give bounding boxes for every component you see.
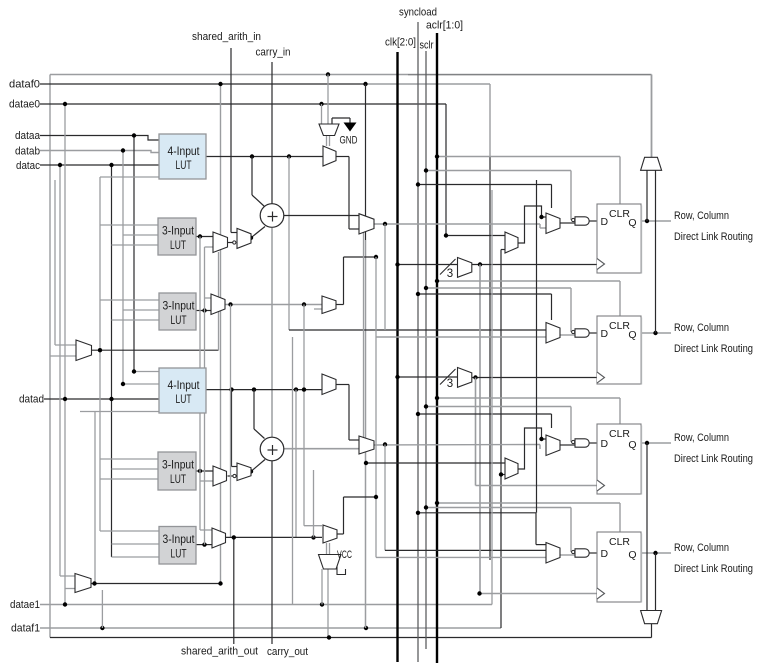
svg-text:4-Input: 4-Input [168,146,201,158]
svg-text:Q: Q [628,217,636,229]
svg-text:datab: datab [15,146,40,158]
svg-text:LUT: LUT [171,315,187,327]
svg-text:3: 3 [447,268,453,280]
svg-text:D: D [601,216,609,228]
svg-text:datae1: datae1 [10,599,40,611]
svg-text:CLR: CLR [609,320,630,332]
svg-text:aclr[1:0]: aclr[1:0] [426,20,463,32]
svg-text:VCC: VCC [337,549,352,561]
svg-text:Row, Column: Row, Column [674,322,729,334]
svg-text:CLR: CLR [609,428,630,440]
svg-text:carry_in: carry_in [256,47,291,59]
svg-text:Direct Link Routing: Direct Link Routing [674,453,753,465]
svg-text:3-Input: 3-Input [163,301,196,313]
svg-text:sclr: sclr [420,40,434,52]
svg-text:D: D [601,548,609,560]
svg-text:datae0: datae0 [9,99,40,111]
svg-text:4-Input: 4-Input [168,380,201,392]
svg-text:3-Input: 3-Input [162,460,195,472]
svg-text:dataf1: dataf1 [11,623,40,635]
svg-text:dataa: dataa [15,130,41,142]
svg-text:LUT: LUT [171,549,187,561]
svg-text:3-Input: 3-Input [162,226,195,238]
svg-text:shared_arith_in: shared_arith_in [192,31,261,43]
svg-text:syncload: syncload [399,7,437,19]
svg-text:clk[2:0]: clk[2:0] [385,37,416,49]
svg-text:shared_arith_out: shared_arith_out [181,646,258,658]
svg-text:CLR: CLR [609,208,630,220]
svg-text:Direct Link Routing: Direct Link Routing [674,563,753,575]
svg-text:dataf0: dataf0 [9,79,40,91]
svg-text:datad: datad [19,394,44,406]
svg-text:Q: Q [628,329,636,341]
svg-text:Row, Column: Row, Column [674,542,729,554]
svg-text:Row, Column: Row, Column [674,210,729,222]
svg-text:3-Input: 3-Input [163,534,196,546]
svg-text:Direct Link Routing: Direct Link Routing [674,231,753,243]
svg-text:GND: GND [340,135,358,147]
svg-text:datac: datac [16,160,40,172]
svg-text:Q: Q [628,549,636,561]
svg-text:Q: Q [628,439,636,451]
svg-text:CLR: CLR [609,536,630,548]
svg-text:D: D [601,438,609,450]
svg-text:LUT: LUT [170,240,186,252]
svg-text:LUT: LUT [176,160,192,172]
svg-text:Row, Column: Row, Column [674,432,729,444]
svg-text:Direct Link Routing: Direct Link Routing [674,343,753,355]
svg-text:LUT: LUT [170,474,186,486]
svg-text:LUT: LUT [176,394,192,406]
svg-text:carry_out: carry_out [267,646,308,658]
svg-text:D: D [601,328,609,340]
svg-text:3: 3 [447,378,453,390]
